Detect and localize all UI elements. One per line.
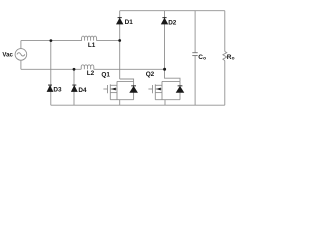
svg-text:o: o <box>232 57 235 62</box>
svg-text:Q2: Q2 <box>146 71 155 78</box>
svg-text:o: o <box>203 57 206 62</box>
svg-text:Vac: Vac <box>2 51 13 58</box>
svg-text:D1: D1 <box>125 19 134 26</box>
svg-text:L1: L1 <box>88 42 96 49</box>
svg-text:D4: D4 <box>78 87 87 94</box>
svg-text:Q1: Q1 <box>101 71 110 78</box>
svg-text:D3: D3 <box>53 86 62 93</box>
svg-text:L2: L2 <box>87 70 95 77</box>
svg-text:D2: D2 <box>168 20 177 27</box>
